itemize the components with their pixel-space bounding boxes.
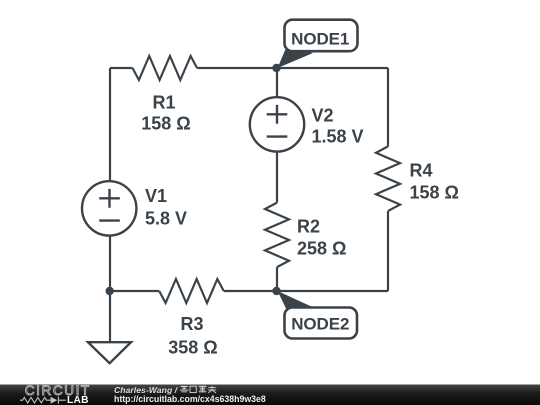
svg-text:358 Ω: 358 Ω [168, 337, 217, 357]
svg-text:http://circuitlab.com/cx4s638h: http://circuitlab.com/cx4s638h9w3e8 [114, 394, 266, 404]
svg-text:NODE1: NODE1 [291, 30, 349, 49]
svg-text:V1: V1 [145, 186, 167, 206]
svg-text:V2: V2 [312, 105, 334, 125]
svg-text:NODE2: NODE2 [291, 314, 349, 333]
svg-text:R3: R3 [180, 314, 203, 334]
svg-text:R1: R1 [152, 92, 175, 112]
svg-text:R2: R2 [297, 216, 320, 236]
svg-text:158 Ω: 158 Ω [410, 183, 459, 203]
svg-text:5.8 V: 5.8 V [145, 209, 187, 229]
svg-text:1.58 V: 1.58 V [312, 127, 364, 147]
svg-text:LAB: LAB [67, 395, 89, 405]
svg-text:R4: R4 [410, 161, 433, 181]
svg-text:258 Ω: 258 Ω [297, 238, 346, 258]
svg-text:158 Ω: 158 Ω [141, 114, 190, 134]
